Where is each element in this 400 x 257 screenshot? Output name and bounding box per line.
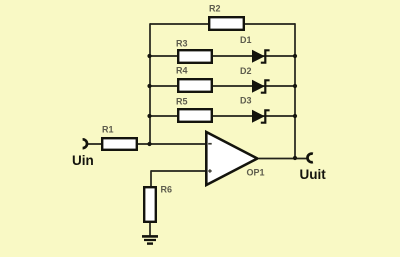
svg-text:R2: R2	[209, 4, 221, 14]
svg-text:D3: D3	[240, 96, 252, 106]
svg-text:Uin: Uin	[72, 153, 94, 168]
svg-text:R1: R1	[102, 125, 114, 135]
svg-text:OP1: OP1	[247, 168, 265, 178]
svg-text:R3: R3	[176, 39, 188, 49]
svg-text:D1: D1	[240, 35, 252, 45]
svg-text:R5: R5	[176, 97, 188, 107]
svg-text:D2: D2	[240, 66, 252, 76]
svg-text:R4: R4	[176, 66, 188, 76]
svg-text:Uuit: Uuit	[300, 167, 327, 182]
svg-text:R6: R6	[161, 185, 173, 195]
